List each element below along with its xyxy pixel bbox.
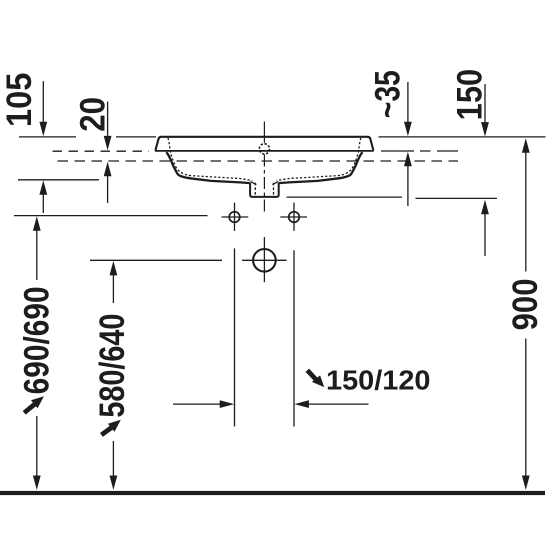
svg-text:150/120: 150/120 bbox=[326, 365, 431, 396]
basin inner hidden edge left (dotted) bbox=[168, 138, 252, 181]
dimension 150/120 right arrow bbox=[294, 400, 368, 408]
svg-text:690/690: 690/690 bbox=[17, 286, 57, 394]
countertop top dashed line left of basin bbox=[53, 150, 150, 152]
svg-text:150: 150 bbox=[450, 69, 490, 121]
dimension 105 upper arrow bbox=[39, 81, 47, 136]
drain funnel edge right bbox=[272, 182, 278, 185]
drain funnel edge left bbox=[250, 182, 256, 185]
rim top extension line left (segment 2) bbox=[116, 136, 156, 138]
faucet hole bbox=[259, 144, 269, 154]
dimension 580/640 line bbox=[110, 261, 118, 490]
dimension 150 lower arrow bbox=[481, 200, 489, 256]
drain hidden wall right (dashed) bbox=[273, 183, 275, 196]
svg-text:580/640: 580/640 bbox=[92, 314, 132, 418]
basin inner hidden edge right (dotted) bbox=[277, 138, 361, 181]
fixing hole right horizontal centre mark bbox=[280, 216, 307, 218]
countertop top dashed line right of basin bbox=[381, 150, 458, 152]
svg-text:105: 105 bbox=[0, 73, 39, 127]
dimension 20 lower arrow bbox=[104, 162, 112, 203]
reference arrow for 150/120 bbox=[307, 370, 324, 387]
reference arrow for 580/640 bbox=[101, 420, 120, 435]
svg-text:~35: ~35 bbox=[368, 70, 408, 118]
washbasin rim outline bbox=[155, 137, 373, 151]
drain pipe horizontal centre mark bbox=[242, 259, 287, 261]
basin outer bowl wall left bbox=[166, 152, 250, 183]
dimension 20 upper arrow bbox=[104, 102, 112, 151]
svg-text:900: 900 bbox=[505, 278, 545, 330]
basin bottom reference line left bbox=[18, 179, 99, 181]
drain pipe circle bbox=[253, 249, 276, 272]
dimension 900 line bbox=[522, 138, 530, 490]
dimension 150 upper arrow bbox=[481, 84, 489, 137]
basin outer bowl wall right bbox=[279, 152, 363, 183]
faucet hole centre line upper bbox=[263, 122, 265, 143]
drain hidden wall left (dashed) bbox=[254, 183, 256, 196]
fixing hole left bbox=[229, 212, 240, 223]
washbasin deck / lip underside line bbox=[155, 150, 374, 152]
fixing hole left vertical centre mark bbox=[234, 203, 236, 231]
dimension 150/120 left arrow bbox=[173, 400, 234, 408]
dimension ~35 upper arrow bbox=[404, 82, 412, 136]
rim top extension line left (segment 1) bbox=[19, 136, 76, 138]
dimension 690/690 line bbox=[33, 216, 41, 490]
drain centre height reference line left bbox=[90, 259, 222, 261]
fixing hole left horizontal centre mark bbox=[222, 216, 249, 218]
faucet hole centre line lower (dash-dot) bbox=[263, 155, 265, 214]
drain pipe vertical centre mark bbox=[263, 237, 265, 282]
fixing hole extension line left bbox=[234, 248, 236, 426]
fixing hole extension line right bbox=[293, 250, 295, 426]
fixing hole height reference line left bbox=[14, 215, 208, 217]
svg-text:20: 20 bbox=[73, 97, 113, 132]
dimension 105 lower arrow bbox=[39, 180, 47, 213]
drain bottom extension line right (segment 1) bbox=[287, 196, 403, 198]
reference arrow for 690/690 bbox=[24, 396, 44, 413]
floor line bbox=[0, 491, 545, 495]
countertop bottom dashed line bbox=[58, 160, 459, 162]
drain bottom extension line right (segment 2) bbox=[416, 197, 498, 199]
fixing hole right bbox=[289, 212, 300, 223]
rim top extension line right bbox=[379, 136, 546, 138]
drain fitting box bbox=[250, 183, 279, 197]
dimension ~35 lower arrow bbox=[404, 152, 412, 206]
fixing hole right vertical centre mark bbox=[293, 203, 295, 231]
